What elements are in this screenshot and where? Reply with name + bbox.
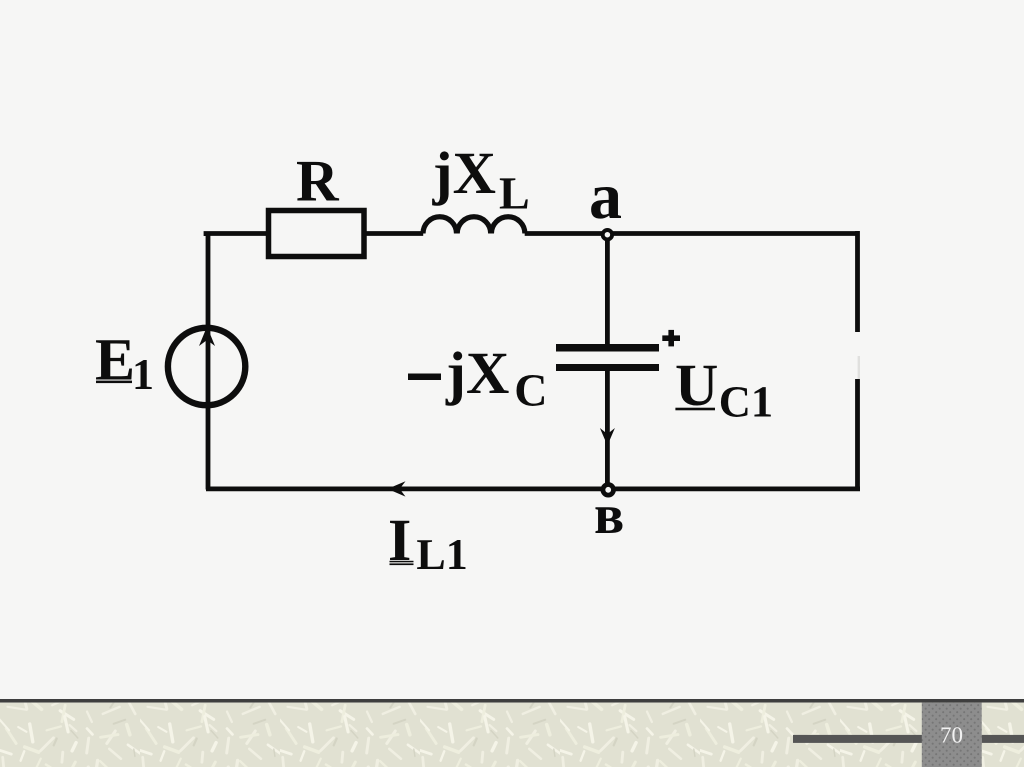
capacitor -jXC bottom plate (556, 364, 659, 371)
arrowhead on capacitor branch (down) (600, 428, 615, 446)
node a (603, 230, 612, 239)
wire bottom (206, 486, 860, 491)
svg-text:C: C (514, 365, 547, 416)
wire capacitor branch upper (605, 235, 610, 344)
svg-text:C1: C1 (719, 377, 773, 427)
footer bar right (982, 735, 1024, 743)
wire right faint segment (858, 356, 860, 379)
wire left (206, 234, 211, 490)
svg-text:jX: jX (432, 140, 496, 206)
arrowhead of E1 (up) (199, 327, 215, 347)
svg-text:L: L (499, 168, 530, 219)
label + of UC1 (662, 335, 680, 341)
footer bar left (793, 735, 923, 743)
capacitor -jXC top plate (556, 344, 659, 352)
wire right lower (855, 379, 860, 490)
svg-text:L1: L1 (416, 530, 467, 579)
svg-text:a: a (589, 160, 622, 233)
svg-text:в: в (594, 484, 624, 546)
footer separator line (0, 699, 1024, 703)
svg-text:70: 70 (940, 723, 963, 748)
inductor jXL (423, 217, 525, 234)
resistor R (269, 211, 365, 257)
node b (603, 485, 614, 496)
wire capacitor branch lower (605, 371, 610, 490)
svg-text:I: I (388, 507, 411, 573)
arrowhead on bottom wire (left, current IL1) (388, 481, 406, 496)
page number box (922, 703, 982, 767)
svg-text:1: 1 (132, 350, 154, 399)
svg-text:jX: jX (445, 340, 509, 406)
wire right upper (855, 231, 860, 332)
label -jXC (408, 374, 441, 381)
footer textured strip (0, 703, 1024, 767)
voltage source E1 (168, 328, 245, 405)
svg-text:R: R (296, 148, 340, 214)
wire top (206, 234, 423, 237)
